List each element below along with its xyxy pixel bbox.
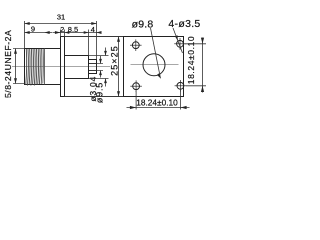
projection line top: [65, 36, 184, 38]
thread callout dimension arrows: [13, 49, 25, 84]
hole bottom-left: [130, 80, 142, 92]
svg-text:5/8-24UNEF-2A: 5/8-24UNEF-2A: [3, 30, 13, 98]
svg-text:18.24±0.10: 18.24±0.10: [136, 97, 178, 107]
end cap: [89, 60, 97, 74]
leader 4-Ø3.5: [173, 28, 183, 53]
dim 31: [25, 21, 97, 60]
svg-text:4-ø3.5: 4-ø3.5: [168, 18, 200, 30]
flange plate side view: [61, 37, 65, 97]
dim Ø9.5: [89, 48, 109, 87]
pin top line: [89, 63, 97, 65]
hole top-right: [174, 38, 186, 50]
svg-text:2: 2: [60, 25, 64, 34]
center circle Ø9.8: [143, 54, 165, 76]
dim bottom 18.24±0.10: [127, 90, 190, 110]
dim right 18.24±0.10: [185, 38, 207, 93]
pin bottom line: [89, 70, 97, 72]
svg-text:8.5: 8.5: [68, 25, 78, 34]
body Ø9.5 side view: [65, 56, 89, 79]
dim row: 9 2 8.5 4: [25, 30, 102, 56]
svg-text:ø9.5: ø9.5: [95, 82, 105, 103]
front flange square: [124, 37, 184, 97]
svg-text:ø9.8: ø9.8: [132, 18, 154, 30]
svg-text:25×25: 25×25: [110, 45, 120, 76]
dim Ø3.04: [97, 56, 104, 78]
leader Ø9.8: [151, 28, 161, 78]
svg-text:9: 9: [31, 24, 35, 33]
thread runout boundary: [44, 49, 46, 85]
svg-text:18.24±0.10: 18.24±0.10: [186, 36, 196, 84]
hole top-left: [130, 39, 142, 51]
thread + collar outer cylinder: [25, 49, 61, 85]
centerline side view: [12, 66, 110, 68]
svg-text:4: 4: [91, 25, 95, 34]
dim 25: [117, 37, 120, 97]
hole bottom-right: [175, 80, 187, 92]
svg-text:31: 31: [57, 13, 65, 22]
front centerline: [131, 64, 179, 66]
thread hatch: [26, 49, 44, 86]
projection line bottom: [65, 96, 184, 98]
